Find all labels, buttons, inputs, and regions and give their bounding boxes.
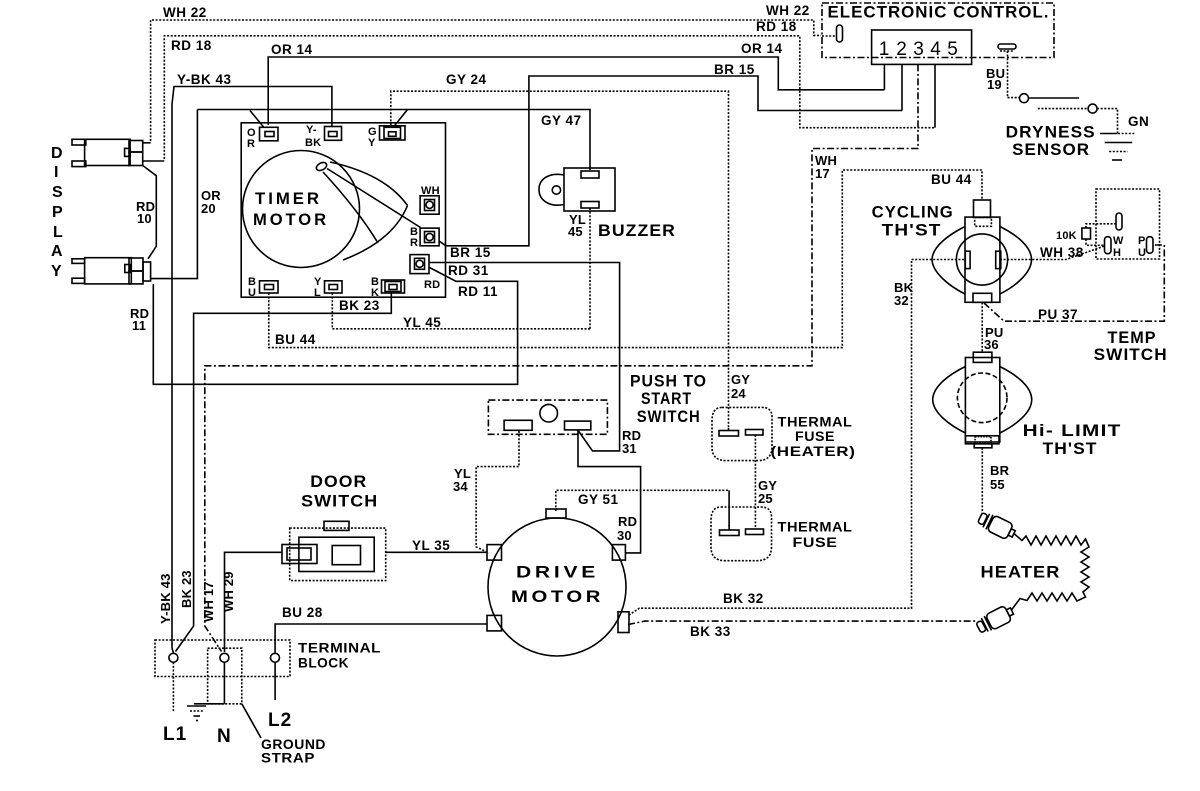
svg-text:55: 55 <box>990 477 1005 492</box>
svg-text:(HEATER): (HEATER) <box>771 444 856 459</box>
svg-text:GN: GN <box>1128 114 1149 129</box>
svg-text:L2: L2 <box>268 710 292 731</box>
wire WH 17 from electronic control pin 3 to terminal block N <box>205 64 918 651</box>
svg-text:WH 22: WH 22 <box>766 3 810 18</box>
svg-text:BK 33: BK 33 <box>690 624 731 639</box>
wire RD 11 from display lower connector to timer RD terminal <box>153 268 517 385</box>
svg-text:BUZZER: BUZZER <box>598 222 676 240</box>
timer terminal B-R <box>420 228 439 246</box>
svg-text:U: U <box>1138 247 1146 259</box>
svg-text:RD: RD <box>618 514 637 529</box>
wire PU 36 cycling to hi-limit <box>981 303 983 353</box>
push to start circle <box>540 404 558 422</box>
svg-text:30: 30 <box>617 528 632 543</box>
wire branch into timer O-R terminal <box>250 111 264 128</box>
svg-text:SENSOR: SENSOR <box>1012 141 1090 159</box>
svg-text:32: 32 <box>894 293 909 308</box>
wire N to ground <box>223 662 225 704</box>
door switch left connector <box>282 545 317 564</box>
display upper connector <box>72 139 164 166</box>
svg-text:S: S <box>52 184 63 201</box>
wire L2 to BU 28 <box>274 662 276 700</box>
svg-text:GY 47: GY 47 <box>541 113 582 128</box>
svg-text:BR 15: BR 15 <box>450 245 491 260</box>
timer cam upper curve <box>330 162 408 206</box>
wire PU 37 from cycling thermostat to temp switch PU <box>984 245 1164 321</box>
temp switch 10K resistor body <box>1082 228 1091 239</box>
timer terminal Y-L <box>325 281 343 293</box>
svg-text:N: N <box>217 726 232 747</box>
pin 4 stub <box>934 64 936 127</box>
pin 2 stub <box>901 64 903 110</box>
svg-text:10: 10 <box>137 211 152 226</box>
svg-text:GY 51: GY 51 <box>578 492 619 507</box>
thermal fuse (heater) right terminal <box>746 430 764 436</box>
heater lower igniter plug <box>975 603 1016 635</box>
timer terminal B-K (double shell) <box>382 280 405 293</box>
heater element zigzag <box>1012 534 1090 610</box>
svg-text:CYCLING: CYCLING <box>872 204 954 222</box>
temp switch P-U terminal capsule <box>1147 237 1154 254</box>
svg-text:TEMP: TEMP <box>1108 329 1157 347</box>
wire WH 38 from cycling thermostat to temp switch <box>1000 246 1105 260</box>
svg-text:WH 17: WH 17 <box>201 581 216 622</box>
svg-text:STRAP: STRAP <box>261 751 315 766</box>
timer motor box <box>241 123 445 297</box>
svg-text:START: START <box>641 390 692 408</box>
timer cam diagonal to B-R terminal <box>327 169 421 228</box>
svg-text:RD 11: RD 11 <box>458 284 498 299</box>
wire GY 24 from timer G-Y terminal down to thermal fuse (heater) <box>391 91 729 428</box>
svg-text:5: 5 <box>947 39 958 60</box>
svg-text:WH 29: WH 29 <box>221 571 236 612</box>
svg-text:BK 23: BK 23 <box>179 570 194 608</box>
thermal fuse right terminal <box>746 529 764 535</box>
wire BR 15 from timer B-R terminal to electronic control pin 2 <box>439 76 902 246</box>
svg-text:P: P <box>52 204 63 221</box>
wire YL 35 door switch to drive motor <box>386 551 487 553</box>
svg-text:BR 15: BR 15 <box>714 62 755 77</box>
svg-text:GY 24: GY 24 <box>446 72 487 87</box>
svg-text:U: U <box>248 287 256 299</box>
timer motor circle <box>243 151 360 268</box>
svg-text:34: 34 <box>453 479 468 494</box>
hi-limit thermostat body <box>933 352 1032 448</box>
wire OR 20 from display lower connector up to timer <box>151 110 198 279</box>
svg-text:BLOCK: BLOCK <box>298 656 349 671</box>
svg-text:BK 32: BK 32 <box>723 591 764 606</box>
svg-text:R: R <box>410 237 418 249</box>
timer terminal O-R <box>260 127 279 141</box>
svg-text:25: 25 <box>758 491 773 506</box>
wire BU 44 from timer B-U to cycling thermostat <box>269 170 982 348</box>
svg-text:TH'ST: TH'ST <box>1043 440 1098 458</box>
wire L1 tail <box>172 662 174 712</box>
temp switch W-H terminal capsule <box>1105 237 1112 254</box>
wire buzzer bottom to YL 45 <box>589 208 591 329</box>
push to start right contact <box>565 421 591 430</box>
wire BK 23 from timer B-K to terminal block L1 <box>176 293 392 652</box>
svg-text:ELECTRONIC CONTROL.: ELECTRONIC CONTROL. <box>828 4 1050 22</box>
svg-text:DOOR: DOOR <box>310 473 367 491</box>
svg-text:RD 18: RD 18 <box>756 19 797 34</box>
drive motor upper-left terminal <box>487 545 502 561</box>
svg-text:31: 31 <box>622 441 637 456</box>
terminal L2 <box>271 653 280 662</box>
wire WH 22 from display to electronic control <box>151 20 821 141</box>
svg-text:A: A <box>51 243 63 260</box>
door switch outer box (dashed) <box>290 528 386 581</box>
display label (vertical) <box>51 145 63 280</box>
svg-text:BR: BR <box>990 463 1010 478</box>
dryness sensor connector cap on control box <box>998 44 1016 49</box>
svg-text:PUSH TO: PUSH TO <box>630 373 707 391</box>
svg-text:WH 22: WH 22 <box>163 5 207 20</box>
electronic control left connector capsule <box>837 25 843 42</box>
wire WH 29 terminal block N to door switch <box>225 552 283 652</box>
wire Y-BK 43 from timer Y-BK terminal to terminal block L1 <box>172 87 332 653</box>
svg-text:19: 19 <box>987 77 1002 92</box>
ground symbol <box>187 706 206 721</box>
dryness sensor contact 1 <box>1008 97 1020 99</box>
thermal fuse left terminal <box>720 525 740 536</box>
timer cam loop <box>315 161 328 172</box>
svg-text:TERMINAL: TERMINAL <box>298 641 381 656</box>
svg-text:3: 3 <box>913 39 924 60</box>
svg-text:THERMAL: THERMAL <box>778 415 853 430</box>
drive motor top terminal <box>546 509 566 518</box>
drive motor upper-right terminal <box>612 545 625 561</box>
svg-text:PU 37: PU 37 <box>1038 307 1078 322</box>
svg-text:L: L <box>314 287 321 299</box>
svg-text:MOTOR: MOTOR <box>253 210 329 229</box>
svg-text:2: 2 <box>896 39 907 60</box>
svg-text:H: H <box>1113 247 1121 259</box>
heater upper igniter plug <box>976 510 1017 542</box>
buzzer body <box>564 168 615 211</box>
svg-text:THERMAL: THERMAL <box>778 520 853 535</box>
timer cam lower curve <box>343 206 408 261</box>
svg-text:BK: BK <box>305 137 321 149</box>
wire BU 19 from control box cap down <box>1007 51 1009 98</box>
svg-text:RD 31: RD 31 <box>448 263 489 278</box>
timer cam inner curve <box>323 172 378 243</box>
buzzer left bump <box>539 174 564 205</box>
svg-text:SWITCH: SWITCH <box>1094 346 1168 364</box>
terminal L1 <box>169 653 178 662</box>
temp switch internal dotted links <box>1086 224 1116 228</box>
svg-text:YL 35: YL 35 <box>412 538 450 553</box>
svg-text:17: 17 <box>815 166 830 181</box>
door switch inner box <box>299 537 374 571</box>
ground strap inner dotted box <box>208 648 242 704</box>
svg-text:BU 44: BU 44 <box>931 172 972 187</box>
svg-text:YL 45: YL 45 <box>403 315 441 330</box>
drive motor lower-right terminal <box>618 612 629 633</box>
svg-text:1: 1 <box>879 39 890 60</box>
display lower connector <box>72 258 151 284</box>
timer terminal WH (unused) <box>420 196 439 214</box>
svg-text:HEATER: HEATER <box>981 564 1061 582</box>
wire BK 32 from drive motor to cycling thermostat <box>629 260 964 616</box>
timer terminal B-U <box>260 281 279 293</box>
svg-text:Y: Y <box>368 137 376 149</box>
svg-text:D: D <box>51 145 63 162</box>
svg-text:WH: WH <box>421 185 440 197</box>
svg-text:DRYNESS: DRYNESS <box>1006 124 1096 142</box>
svg-text:OR 14: OR 14 <box>741 41 783 56</box>
svg-text:RD 18: RD 18 <box>171 38 212 53</box>
push to start left contact <box>504 420 532 430</box>
cycling thermostat body <box>932 200 1032 302</box>
wire GY 51 drive motor top to thermal fuse <box>556 490 729 511</box>
door switch inner contact <box>332 546 360 565</box>
thermal fuse (heater) left terminal <box>719 428 739 436</box>
buzzer small circle <box>552 186 560 194</box>
ground symbol dryness sensor <box>1105 143 1133 161</box>
svg-text:BU 28: BU 28 <box>282 605 323 620</box>
timer terminal RD <box>410 255 429 274</box>
svg-text:24: 24 <box>731 386 746 401</box>
timer terminal Y-BK <box>325 127 342 141</box>
wire net OR20/GY47 horizontal across top of timer <box>197 110 590 171</box>
labels 1 2 3 4 5 <box>879 39 958 60</box>
svg-text:20: 20 <box>201 201 216 216</box>
buzzer bottom terminal <box>581 202 599 209</box>
terminal block box (dashed) <box>155 640 290 677</box>
svg-text:MOTOR: MOTOR <box>511 587 604 606</box>
svg-text:R: R <box>247 138 255 150</box>
svg-text:P: P <box>1138 235 1146 247</box>
push to start switch box <box>488 400 607 434</box>
drive motor lower-left terminal <box>487 615 502 631</box>
svg-text:45: 45 <box>568 224 583 239</box>
svg-text:Y-BK 43: Y-BK 43 <box>158 573 173 624</box>
timer terminal G-Y (double shell) <box>380 126 406 140</box>
svg-text:BU 44: BU 44 <box>275 332 316 347</box>
wire GY 25 between fuses <box>754 435 756 529</box>
wire BK 33 from drive motor to heater lower igniter <box>628 621 976 624</box>
svg-text:RD: RD <box>424 279 440 291</box>
electronic control box (dashed) <box>822 3 1054 58</box>
svg-text:GY: GY <box>731 372 750 387</box>
svg-text:4: 4 <box>930 39 941 60</box>
pin 1 stub <box>883 64 885 89</box>
wire RD 31 from timer RD terminal to push-to-start <box>429 263 620 451</box>
svg-text:TH'ST: TH'ST <box>882 222 942 240</box>
svg-text:SWITCH: SWITCH <box>637 408 701 426</box>
wire RD 10 from display upper connector to lower connector <box>143 166 157 259</box>
wire YL 34 push-to-start to drive motor <box>476 431 519 553</box>
wire RD 18 from display to electronic control pin 4 <box>164 36 935 159</box>
electronic control 1-5 connector box <box>872 30 972 64</box>
svg-text:WH 38: WH 38 <box>1040 245 1084 260</box>
temp switch box (dashed) <box>1096 189 1160 259</box>
door switch top tab <box>324 521 349 530</box>
svg-text:Y-: Y- <box>306 124 317 136</box>
terminal N <box>220 653 229 662</box>
wire RD 30 push-to-start to drive motor <box>578 430 641 553</box>
svg-text:11: 11 <box>132 318 146 333</box>
svg-text:Y: Y <box>51 263 62 280</box>
wire YL 45 from timer Y-L to buzzer <box>332 293 590 329</box>
svg-text:SWITCH: SWITCH <box>301 493 378 511</box>
GN lead to ground <box>1100 133 1118 135</box>
svg-text:BK 23: BK 23 <box>339 298 380 313</box>
svg-text:36: 36 <box>984 337 999 352</box>
temp switch capsule top <box>1116 213 1122 230</box>
svg-text:TIMER: TIMER <box>255 189 322 208</box>
thermal fuse body <box>711 507 772 561</box>
wire BR 55 hi-limit to heater igniter <box>981 448 983 514</box>
svg-text:W: W <box>1113 235 1124 247</box>
buzzer top terminal <box>581 171 599 178</box>
drive motor circle <box>488 518 626 656</box>
dryness sensor contact 2 <box>1038 108 1088 110</box>
svg-text:FUSE: FUSE <box>793 535 838 550</box>
svg-text:10K: 10K <box>1056 230 1077 242</box>
svg-text:I: I <box>54 164 58 181</box>
ground strap pointer line <box>242 704 261 738</box>
svg-text:FUSE: FUSE <box>795 429 835 444</box>
svg-text:Hi- LIMIT: Hi- LIMIT <box>1023 422 1122 440</box>
wire OR 14 from timer O-R to electronic control pin 1 <box>268 57 884 125</box>
svg-text:L: L <box>53 224 63 241</box>
svg-text:Y-BK 43: Y-BK 43 <box>177 72 232 87</box>
svg-text:OR 14: OR 14 <box>271 42 313 57</box>
wire branch into timer G-Y terminal <box>394 110 408 128</box>
svg-text:L1: L1 <box>163 724 187 745</box>
thermal fuse (heater) body <box>712 407 772 460</box>
wire capsule to box edge <box>822 35 836 37</box>
svg-text:DRIVE: DRIVE <box>516 563 599 582</box>
